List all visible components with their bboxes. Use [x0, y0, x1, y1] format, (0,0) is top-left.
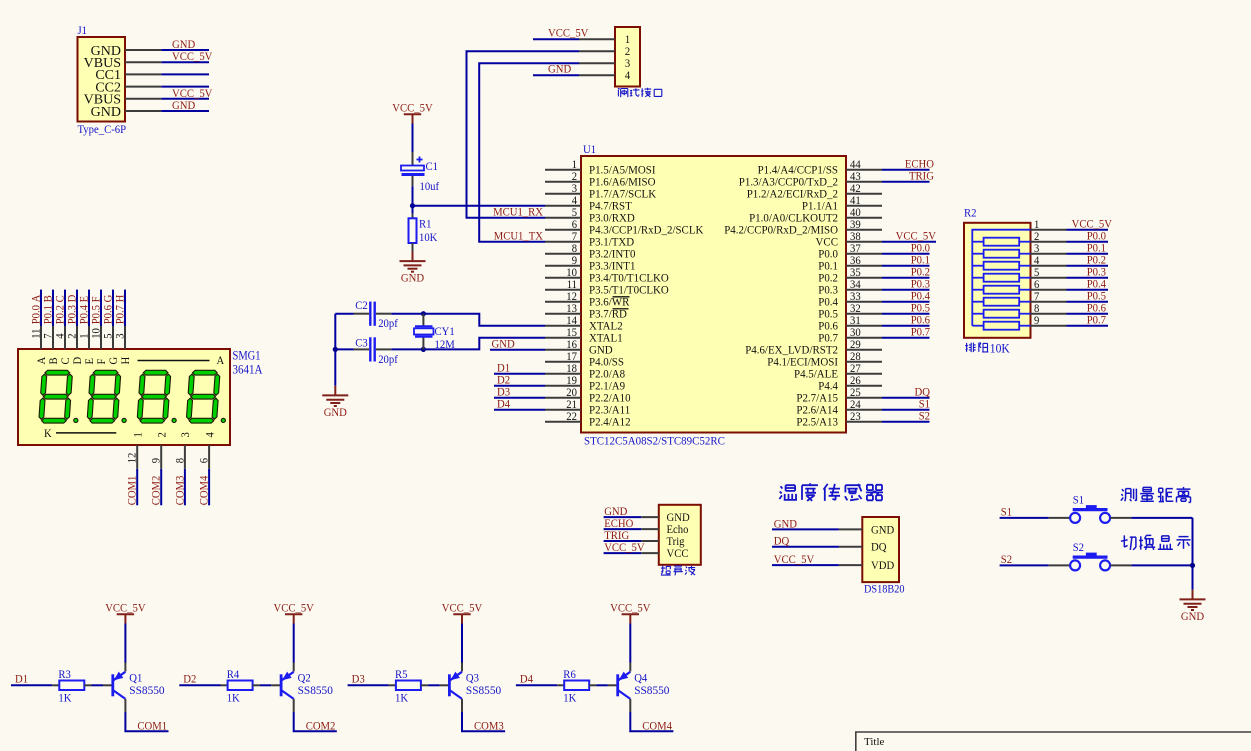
node crystal top junction: [421, 311, 426, 316]
svg-text:10uf: 10uf: [420, 181, 440, 193]
svg-text:P0.3: P0.3: [1087, 267, 1107, 279]
wire crystal top to U1 XTAL2 pin 14: [423, 314, 545, 326]
svg-text:P0.7 H: P0.7 H: [115, 295, 127, 325]
svg-text:3: 3: [572, 183, 578, 195]
svg-text:5: 5: [103, 333, 115, 339]
wire debug pin 3 to MCU1_TX: [479, 63, 579, 242]
U1 pin 2 P1.6/A6/MISO: [545, 181, 581, 183]
svg-text:40: 40: [850, 207, 861, 219]
svg-text:GND: GND: [91, 105, 121, 120]
wire VCC to C1: [412, 124, 414, 153]
wire GND: [604, 516, 642, 518]
wire ECHO from U1 pin 44: [882, 169, 930, 171]
svg-text:P0.0 A: P0.0 A: [31, 294, 43, 324]
power port VCC_5V (driver 4): [622, 614, 639, 623]
svg-text:1: 1: [132, 432, 144, 438]
U1 pin 12 P3.6/WR: [545, 301, 581, 303]
svg-text:P4.5/ALE: P4.5/ALE: [794, 369, 838, 381]
svg-text:6: 6: [572, 219, 578, 231]
svg-text:9: 9: [572, 255, 578, 267]
svg-text:SS8550: SS8550: [634, 685, 670, 697]
R2 pin 3: [1031, 253, 1067, 255]
U1 pin 35 P0.2: [846, 277, 882, 279]
svg-text:D1: D1: [15, 674, 28, 686]
svg-text:20pf: 20pf: [378, 318, 398, 330]
SMG1 digit 4: [186, 370, 220, 423]
svg-text:COM4: COM4: [199, 475, 211, 505]
svg-text:30: 30: [850, 327, 861, 339]
svg-text:GND: GND: [604, 506, 627, 518]
debug header pin 2: [579, 50, 615, 52]
SMG1 top pin 5: [112, 326, 114, 349]
svg-text:2: 2: [572, 171, 578, 183]
svg-text:P0.4: P0.4: [1087, 279, 1107, 291]
svg-text:P1.6/A6/MISO: P1.6/A6/MISO: [589, 177, 656, 189]
svg-text:11: 11: [567, 279, 578, 291]
svg-text:25: 25: [850, 387, 861, 399]
ultrasonic pin 1 GND: [641, 516, 659, 518]
svg-text:P1.5/A5/MOSI: P1.5/A5/MOSI: [589, 165, 656, 177]
J1 pin 2 VBUS: [125, 61, 161, 63]
resistor R2 element 3: [972, 265, 983, 267]
J1 pin 4 CC2: [125, 86, 161, 88]
svg-text:D2: D2: [497, 375, 510, 387]
svg-text:12: 12: [566, 291, 577, 303]
svg-text:6: 6: [1034, 279, 1040, 291]
svg-text:31: 31: [850, 315, 861, 327]
wire node to R1: [412, 206, 414, 214]
svg-text:P4.0/SS: P4.0/SS: [589, 357, 624, 369]
SMG1 digit 1: [39, 370, 73, 423]
svg-text:A: A: [36, 356, 48, 364]
svg-text:SS8550: SS8550: [466, 685, 502, 697]
svg-text:P2.2/A10: P2.2/A10: [589, 393, 631, 405]
svg-text:P0.7: P0.7: [1087, 315, 1107, 327]
svg-text:S1: S1: [919, 399, 931, 411]
wire P0.7 from U1 pin 30: [882, 337, 930, 339]
wire C3 to crystal node: [391, 348, 423, 350]
SMG1 bottom pin 6: [208, 445, 210, 469]
svg-text:ECHO: ECHO: [604, 518, 633, 530]
wire VCC_5V to debug pin 1: [533, 38, 579, 40]
svg-text:P3.2/INT0: P3.2/INT0: [589, 249, 636, 261]
wire R2 pin 4 net: [1067, 265, 1109, 267]
wire TRIG from U1 pin 43: [882, 181, 930, 183]
node crystal bottom junction: [421, 347, 426, 352]
title block border: [856, 732, 1251, 751]
svg-text:COM3: COM3: [474, 720, 504, 732]
wire crystal bottom to U1 XTAL1 pin 15: [423, 338, 545, 350]
svg-text:3: 3: [115, 333, 127, 339]
svg-text:P0.1: P0.1: [818, 261, 838, 273]
wire segment display P0.1 B: [52, 290, 54, 326]
U1 pin 27 P4.5/ALE: [846, 373, 882, 375]
svg-text:GND: GND: [172, 100, 195, 112]
svg-text:D4: D4: [520, 674, 533, 686]
SMG1 top pin 11: [40, 326, 42, 349]
svg-text:CY1: CY1: [435, 326, 455, 338]
svg-text:DQ: DQ: [871, 542, 887, 554]
U1 pin 13 P3.7/RD: [545, 313, 581, 315]
svg-text:3: 3: [1034, 243, 1040, 255]
svg-text:GND: GND: [774, 518, 797, 530]
svg-text:GND: GND: [667, 512, 690, 524]
svg-text:7: 7: [572, 231, 578, 243]
svg-text:10: 10: [566, 267, 577, 279]
wire P0.5 from U1 pin 32: [882, 313, 930, 315]
svg-text:VCC_5V: VCC_5V: [172, 51, 213, 63]
svg-text:24: 24: [850, 399, 861, 411]
svg-text:COM1: COM1: [127, 475, 139, 505]
svg-text:P0.4: P0.4: [911, 291, 931, 303]
svg-text:2: 2: [625, 46, 631, 58]
svg-text:TRIG: TRIG: [604, 530, 629, 542]
wire P0.0 from U1 pin 37: [882, 253, 930, 255]
svg-text:9: 9: [1034, 315, 1040, 327]
svg-text:COM1: COM1: [137, 720, 167, 732]
wire S2 from U1 pin 23: [882, 421, 930, 423]
display SMG1 body: [18, 349, 230, 445]
svg-text:P1.7/A7/SCLK: P1.7/A7/SCLK: [589, 189, 657, 201]
svg-text:43: 43: [850, 171, 861, 183]
ultrasonic comment 超声波: [661, 566, 671, 576]
wire segment display P0.6 G: [112, 290, 114, 326]
power port VCC_5V (driver 1): [117, 614, 134, 623]
svg-text:J1: J1: [78, 25, 88, 37]
SMG1 digit 2: [87, 370, 121, 423]
resistor R5: [389, 684, 396, 686]
wire D1 to R3: [11, 684, 52, 686]
U1 pin 10 P3.4/T0/T1CLKO: [545, 277, 581, 279]
resistor R3: [52, 684, 59, 686]
J1 pin 5 VBUS: [125, 98, 161, 100]
svg-text:28: 28: [850, 351, 861, 363]
wire segment display P0.3 D: [76, 290, 78, 326]
mcu U1 body: [581, 156, 846, 433]
U1 pin 26 P4.4: [846, 385, 882, 387]
svg-text:U1: U1: [583, 144, 596, 156]
U1 pin 24 P2.6/A14: [846, 409, 882, 411]
U1 pin 15 XTAL1: [545, 337, 581, 339]
U1 pin 34 P0.3: [846, 289, 882, 291]
debug header pin 3: [579, 62, 615, 64]
svg-text:DQ: DQ: [774, 536, 790, 548]
wire P0.4 from U1 pin 33: [882, 301, 930, 303]
U1 pin 33 P0.4: [846, 301, 882, 303]
wire J1 pin 4: [161, 86, 209, 88]
svg-text:VCC_5V: VCC_5V: [896, 231, 937, 243]
wire C1 to node: [412, 186, 414, 205]
wire TRIG: [604, 540, 642, 542]
overline for pin name WR: [613, 296, 630, 298]
svg-text:5: 5: [572, 207, 578, 219]
svg-text:P0.0: P0.0: [911, 243, 931, 255]
SMG1 top pin 1: [88, 326, 90, 349]
SMG1 decimal point 3: [172, 418, 176, 422]
svg-text:1: 1: [572, 159, 578, 171]
svg-text:10K: 10K: [990, 342, 1010, 356]
crystal CY1: [422, 314, 424, 327]
wire COM3: [184, 469, 186, 506]
wire J1 pin 3: [161, 73, 209, 75]
wire D3 to R5: [348, 684, 389, 686]
debug header comment 调试接口: [618, 88, 628, 97]
svg-text:P0.6: P0.6: [818, 321, 838, 333]
svg-text:P0.2: P0.2: [818, 273, 838, 285]
svg-text:E: E: [84, 358, 96, 365]
wire R5 to Q3 base: [428, 684, 440, 686]
svg-text:11: 11: [31, 328, 43, 339]
wire S1 to switch: [1000, 517, 1049, 519]
wire COM2: [160, 469, 162, 506]
capacitor C2: [354, 313, 370, 315]
ultrasonic pin 4 VCC: [641, 552, 659, 554]
svg-text:P0.2: P0.2: [1087, 255, 1107, 267]
svg-text:P0.6: P0.6: [1087, 303, 1107, 315]
SMG1 bottom pin 12: [136, 445, 138, 469]
svg-text:12: 12: [127, 452, 139, 463]
wire switch S2 to ground rail: [1131, 564, 1192, 566]
SMG1 top pin 10: [100, 326, 102, 349]
U1 pin 11 P3.5/T1/T0CLKO: [545, 289, 581, 291]
resistor R2 element 8: [972, 325, 983, 327]
svg-text:P1.2/A2/ECI/RxD_2: P1.2/A2/ECI/RxD_2: [747, 189, 839, 201]
svg-text:P0.5 F: P0.5 F: [91, 296, 103, 324]
svg-text:P2.3/A11: P2.3/A11: [589, 405, 630, 417]
U1 pin 28 P4.1/ECI/MOSI: [846, 361, 882, 363]
switch S2: [1049, 564, 1070, 566]
U1 pin 43 P1.3/A3/CCP0/TxD_2: [846, 181, 882, 183]
svg-text:P2.6/A14: P2.6/A14: [796, 405, 838, 417]
svg-text:33: 33: [850, 291, 861, 303]
J1 pin 6 GND: [125, 110, 161, 112]
wire COM1: [136, 469, 138, 506]
debug header pin 4: [579, 74, 615, 76]
svg-text:P0.6: P0.6: [911, 315, 931, 327]
svg-text:41: 41: [850, 195, 861, 207]
svg-text:Trig: Trig: [667, 536, 685, 548]
svg-text:2: 2: [156, 432, 168, 438]
svg-text:P3.7/RD: P3.7/RD: [589, 309, 627, 321]
wire D2 to R4: [179, 684, 220, 686]
R2 pin 7: [1031, 301, 1067, 303]
ground below R1: [400, 252, 426, 272]
svg-text:7: 7: [43, 333, 55, 339]
svg-text:42: 42: [850, 183, 861, 195]
wire caps common to ground: [334, 314, 336, 386]
U1 pin 19 P2.1/A9: [545, 385, 581, 387]
U1 pin 38 VCC: [846, 241, 882, 243]
DS18B20 pin 1 GND: [839, 528, 862, 530]
svg-text:VCC_5V: VCC_5V: [610, 603, 651, 615]
SMG1 bottom pin 9: [160, 445, 162, 469]
wire segment display P0.0 A: [40, 290, 42, 326]
J1 pin 1 GND: [125, 49, 161, 51]
resistor R2 element 6: [972, 301, 983, 303]
svg-text:2: 2: [1034, 231, 1040, 243]
svg-text:6: 6: [199, 458, 211, 464]
DS18B20 pin 2 DQ: [839, 546, 862, 548]
svg-text:23: 23: [850, 411, 861, 423]
svg-text:14: 14: [566, 315, 577, 327]
svg-text:G: G: [108, 357, 120, 365]
svg-text:C3: C3: [355, 337, 368, 349]
U1 pin 22 P2.4/A12: [545, 421, 581, 423]
svg-text:Echo: Echo: [667, 524, 689, 536]
wire C2 to crystal node: [391, 313, 423, 315]
svg-text:P0.4 E: P0.4 E: [79, 296, 91, 325]
U1 pin 6 P4.3/CCP1/RxD_2/SCLK: [545, 229, 581, 231]
svg-text:S2: S2: [919, 411, 931, 423]
wire COM4: [208, 469, 210, 506]
svg-text:R6: R6: [563, 669, 576, 681]
R2 pin 6: [1031, 289, 1067, 291]
svg-text:4: 4: [572, 195, 578, 207]
wire segment display P0.5 F: [100, 290, 102, 326]
svg-text:Q2: Q2: [298, 673, 311, 685]
caption 测量距离: [1121, 489, 1137, 502]
svg-text:GND: GND: [492, 339, 515, 351]
wire GND to U1 pin 16: [490, 349, 545, 351]
svg-text:P2.1/A9: P2.1/A9: [589, 381, 625, 393]
svg-text:Q4: Q4: [634, 673, 647, 685]
svg-text:GND: GND: [548, 64, 571, 76]
transistor Q4: [616, 674, 619, 696]
wire ground rail vertical: [1192, 518, 1194, 590]
svg-text:4: 4: [625, 70, 631, 82]
svg-text:P0.5: P0.5: [818, 309, 838, 321]
resistor R6: [557, 684, 564, 686]
svg-text:P3.6/WR: P3.6/WR: [589, 297, 630, 309]
U1 pin 32 P0.5: [846, 313, 882, 315]
svg-text:VCC_5V: VCC_5V: [274, 603, 315, 615]
U1 pin 3 P1.7/A7/SCLK: [545, 193, 581, 195]
svg-text:P2.5/A13: P2.5/A13: [796, 417, 838, 429]
R2 pin 5: [1031, 277, 1067, 279]
svg-text:P3.1/TXD: P3.1/TXD: [589, 237, 634, 249]
svg-text:TRIG: TRIG: [909, 171, 934, 183]
svg-text:S2: S2: [1073, 542, 1085, 554]
svg-text:P0.0: P0.0: [1087, 231, 1107, 243]
svg-text:1: 1: [79, 333, 91, 339]
resistor R2 element 5: [972, 289, 983, 291]
svg-text:P3.4/T0/T1CLKO: P3.4/T0/T1CLKO: [589, 273, 669, 285]
U1 pin 18 P2.0/A8: [545, 373, 581, 375]
wire Q4 collector to COM4: [629, 699, 631, 712]
R2 pin 2: [1031, 241, 1067, 243]
J1 pin 3 CC1: [125, 73, 161, 75]
svg-text:P3.0/RXD: P3.0/RXD: [589, 213, 635, 225]
wire Q1 collector to COM1: [124, 699, 126, 712]
wire VCC_5V: [772, 564, 839, 566]
svg-text:P4.6/EX_LVD/RST2: P4.6/EX_LVD/RST2: [745, 345, 838, 357]
U1 pin 9 P3.3/INT1: [545, 265, 581, 267]
svg-text:VCC_5V: VCC_5V: [1072, 219, 1113, 231]
wire D4 to U1 pin 21: [494, 409, 545, 411]
svg-text:SS8550: SS8550: [129, 685, 165, 697]
svg-text:R2: R2: [964, 208, 977, 220]
svg-text:12M: 12M: [435, 339, 455, 351]
wire P0.2 from U1 pin 35: [882, 277, 930, 279]
svg-text:VDD: VDD: [871, 560, 894, 572]
svg-text:35: 35: [850, 267, 861, 279]
ultrasonic pin 3 Trig: [641, 540, 659, 542]
wire P0.1 from U1 pin 36: [882, 265, 930, 267]
svg-text:D3: D3: [497, 387, 510, 399]
wire R2 pin 2 net: [1067, 241, 1109, 243]
svg-text:R5: R5: [395, 669, 408, 681]
svg-text:3641A: 3641A: [233, 362, 263, 376]
R2 comment 排阻10K: [965, 343, 976, 353]
svg-text:17: 17: [566, 351, 577, 363]
node caps common junction: [333, 347, 338, 352]
switch S1: [1049, 517, 1070, 519]
U1 pin 41 P1.1/A1: [846, 205, 882, 207]
svg-text:COM2: COM2: [306, 720, 336, 732]
SMG1 top pin 2: [76, 326, 78, 349]
svg-text:29: 29: [850, 339, 861, 351]
debug header pin 1: [579, 38, 615, 40]
svg-text:GND: GND: [324, 407, 347, 419]
wire VCC_5V: [604, 552, 642, 554]
svg-text:VCC: VCC: [667, 548, 689, 560]
wire R2 pin 7 net: [1067, 301, 1109, 303]
svg-text:8: 8: [572, 243, 578, 255]
svg-text:10K: 10K: [419, 232, 438, 244]
resistor R2 element 7: [972, 313, 983, 315]
SMG1 top pin 7: [52, 326, 54, 349]
svg-text:1: 1: [1034, 219, 1040, 231]
power port VCC_5V (driver 2): [285, 614, 302, 623]
svg-text:GND: GND: [589, 345, 613, 357]
svg-text:13: 13: [566, 303, 577, 315]
svg-text:34: 34: [850, 279, 861, 291]
capacitor C1: [412, 152, 414, 166]
svg-text:B: B: [48, 357, 60, 364]
wire ECHO: [604, 528, 642, 530]
svg-text:GND: GND: [172, 39, 195, 51]
svg-text:P4.1/ECI/MOSI: P4.1/ECI/MOSI: [767, 357, 838, 369]
svg-text:A: A: [217, 355, 225, 367]
resistor R1: [412, 214, 414, 219]
svg-text:VCC_5V: VCC_5V: [548, 28, 589, 40]
svg-text:P4.3/CCP1/RxD_2/SCLK: P4.3/CCP1/RxD_2/SCLK: [589, 225, 704, 237]
wire J1 pin 6: [161, 110, 209, 112]
wire R2 common rail: [972, 230, 1030, 326]
svg-text:38: 38: [850, 231, 861, 243]
wire R2 pin 1 net: [1067, 229, 1109, 231]
U1 pin 5 P3.0/RXD: [545, 217, 581, 219]
svg-text:C1: C1: [426, 161, 439, 173]
svg-text:10: 10: [91, 328, 103, 339]
svg-text:VCC_5V: VCC_5V: [774, 554, 815, 566]
wire R2 pin 5 net: [1067, 277, 1109, 279]
U1 pin 23 P2.5/A13: [846, 421, 882, 423]
capacitor C3: [354, 348, 370, 350]
wire debug pin 2 to MCU1_RX: [467, 51, 580, 218]
svg-text:P3.5/T1/T0CLKO: P3.5/T1/T0CLKO: [589, 285, 669, 297]
U1 pin 44 P1.4/A4/CCP1/SS: [846, 169, 882, 171]
svg-text:SS8550: SS8550: [298, 685, 334, 697]
wire J1 pin 2: [161, 61, 209, 63]
svg-text:P1.1/A1: P1.1/A1: [802, 201, 838, 213]
svg-text:44: 44: [850, 159, 861, 171]
wire D2 to U1 pin 19: [494, 385, 545, 387]
U1 pin 30 P0.7: [846, 337, 882, 339]
svg-text:P2.7/A15: P2.7/A15: [796, 393, 838, 405]
SMG1 top pin 3: [124, 326, 126, 349]
wire XTAL2 net: [335, 313, 353, 315]
